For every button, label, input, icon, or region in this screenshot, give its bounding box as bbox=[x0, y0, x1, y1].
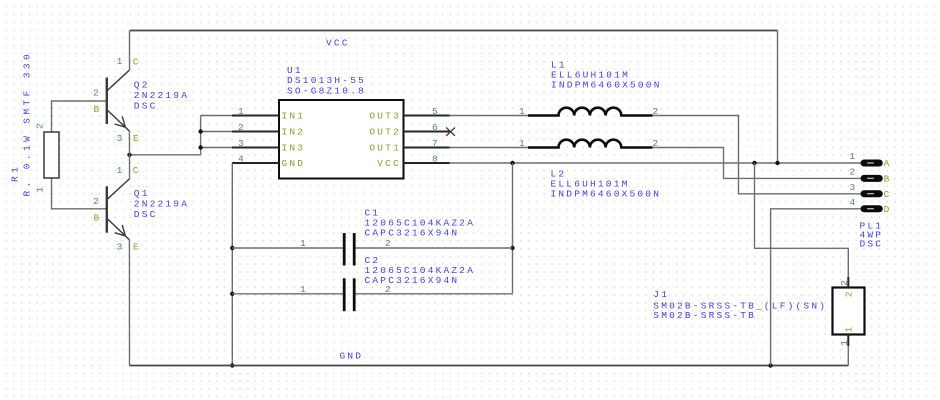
svg-text:3: 3 bbox=[238, 138, 246, 149]
svg-text:DSC: DSC bbox=[134, 209, 158, 220]
svg-text:B: B bbox=[94, 213, 102, 224]
wire J1 pin1 to GND rail bbox=[847, 335, 849, 366]
svg-text:INDPM6460X500N: INDPM6460X500N bbox=[551, 188, 662, 199]
svg-text:GND: GND bbox=[282, 158, 306, 169]
svg-text:C: C bbox=[133, 165, 141, 176]
junction C2 pin1 bbox=[230, 292, 234, 296]
svg-text:OUT1: OUT1 bbox=[369, 143, 401, 154]
pin 3 IN3 of U1 bbox=[232, 147, 279, 149]
wire U1 pin4 GND vertical bbox=[231, 163, 233, 366]
wire U1 pin7 to L2 bbox=[450, 147, 529, 149]
wire C2 pin1 bbox=[232, 293, 343, 295]
junction GND rail at caps bbox=[230, 363, 234, 367]
svg-text:GND: GND bbox=[340, 350, 364, 361]
svg-text:3: 3 bbox=[117, 133, 125, 144]
svg-text:1: 1 bbox=[844, 325, 855, 333]
connector PL1 pad B bbox=[861, 175, 883, 182]
svg-text:1: 1 bbox=[519, 138, 527, 149]
wire VCC drop to connector net A bbox=[777, 31, 779, 164]
svg-text:6: 6 bbox=[432, 122, 440, 133]
wire C2 pin2 bbox=[356, 293, 513, 295]
svg-text:R. 0.1W SMTF 330: R. 0.1W SMTF 330 bbox=[22, 51, 33, 197]
wire C1 pin1 bbox=[232, 247, 343, 249]
junction Q2 emitter / Q1 collector bbox=[127, 153, 131, 157]
svg-text:1: 1 bbox=[300, 284, 308, 295]
connector J1 box bbox=[833, 288, 865, 335]
svg-text:2: 2 bbox=[238, 122, 246, 133]
svg-text:SO-G8Z10.8: SO-G8Z10.8 bbox=[287, 85, 366, 96]
svg-text:DSC: DSC bbox=[860, 239, 884, 250]
svg-text:B: B bbox=[884, 174, 892, 185]
junction input bus pin3 bbox=[198, 145, 202, 149]
connector PL1 pad A bbox=[861, 160, 883, 167]
capacitor C1 bbox=[344, 233, 354, 266]
svg-text:OUT3: OUT3 bbox=[369, 111, 401, 122]
pin 7 OUT1 of U1 bbox=[404, 147, 450, 149]
wire VCC top rail bbox=[130, 30, 778, 32]
pin 2 of J1 bbox=[847, 277, 849, 288]
svg-text:A: A bbox=[884, 158, 892, 169]
svg-text:SM02B-SRSS-TB: SM02B-SRSS-TB bbox=[653, 310, 756, 321]
svg-text:4: 4 bbox=[850, 197, 858, 208]
pin 5 OUT3 of U1 bbox=[404, 115, 450, 117]
transistor Q1 bbox=[107, 179, 130, 240]
svg-text:2: 2 bbox=[850, 166, 858, 177]
svg-text:C: C bbox=[884, 189, 892, 200]
wire VCC net U1 pin8 to connector pin A bbox=[450, 162, 861, 164]
svg-text:1: 1 bbox=[238, 106, 246, 117]
pin 2 IN2 of U1 bbox=[232, 131, 279, 133]
svg-text:R1: R1 bbox=[10, 164, 21, 182]
svg-text:E: E bbox=[133, 242, 141, 253]
svg-text:DSC: DSC bbox=[134, 101, 158, 112]
svg-text:1: 1 bbox=[850, 151, 858, 162]
inductor L2 bbox=[528, 140, 653, 148]
svg-text:2: 2 bbox=[93, 196, 101, 207]
svg-text:CAPC3216X94N: CAPC3216X94N bbox=[365, 275, 460, 286]
capacitor C2 bbox=[344, 278, 354, 311]
wire input to U1 pin2 bbox=[201, 131, 232, 133]
junction C1 pin1 bbox=[230, 246, 234, 250]
pin 4 GND of U1 bbox=[232, 162, 279, 164]
svg-text:E: E bbox=[133, 133, 141, 144]
op-amp U1 box bbox=[279, 100, 404, 179]
svg-text:2: 2 bbox=[844, 289, 855, 297]
svg-text:2: 2 bbox=[385, 238, 393, 249]
wire input to U1 pin3 bbox=[201, 147, 232, 149]
svg-text:3: 3 bbox=[850, 182, 858, 193]
svg-text:INDPM6460X500N: INDPM6460X500N bbox=[551, 80, 662, 91]
pin 1 of J1 bbox=[847, 335, 849, 347]
wire VCC branch to J1 pin2 bbox=[755, 163, 849, 288]
pin 1 IN1 of U1 bbox=[232, 115, 279, 117]
svg-text:2: 2 bbox=[839, 278, 850, 286]
svg-text:4: 4 bbox=[238, 154, 246, 165]
wire R1 pin1 to Q1 base bbox=[52, 178, 108, 209]
svg-text:OUT2: OUT2 bbox=[369, 127, 401, 138]
svg-text:VCC: VCC bbox=[326, 37, 350, 48]
svg-text:IN3: IN3 bbox=[282, 143, 306, 154]
wire Q2 emitter down to node bbox=[128, 131, 130, 155]
svg-text:Q2: Q2 bbox=[134, 80, 150, 91]
wire Q1 emitter to GND rail bbox=[128, 240, 130, 366]
svg-text:1: 1 bbox=[839, 338, 850, 346]
svg-text:2: 2 bbox=[35, 121, 46, 129]
wire Q2 emitter / Q1 collector node to input bus bbox=[130, 116, 201, 155]
svg-text:1: 1 bbox=[117, 56, 125, 67]
transistor Q2 bbox=[107, 70, 130, 131]
svg-text:7: 7 bbox=[432, 138, 440, 149]
svg-text:C: C bbox=[133, 56, 141, 67]
svg-text:2: 2 bbox=[93, 87, 101, 98]
pin 6 OUT2 of U1 bbox=[404, 131, 451, 133]
wire connector pin D to GND bbox=[771, 209, 861, 366]
wire L1 to connector pin C bbox=[653, 116, 861, 194]
wire Q2 collector to VCC bbox=[129, 31, 131, 71]
wire U1 pin5 to L1 bbox=[450, 115, 529, 117]
wire caps right side vertical bbox=[512, 163, 514, 294]
wire L2 to connector pin B bbox=[653, 148, 861, 179]
wire input to U1 pin1 bbox=[201, 115, 232, 117]
svg-text:D: D bbox=[884, 204, 892, 215]
wire Q1 collector up to node bbox=[129, 155, 131, 179]
wire GND rail bbox=[130, 365, 849, 367]
svg-text:J1: J1 bbox=[653, 289, 669, 300]
junction input bus pin2 bbox=[198, 129, 202, 133]
svg-text:B: B bbox=[94, 104, 102, 115]
connector PL1 pad C bbox=[861, 190, 883, 197]
pin 8 VCC of U1 bbox=[404, 162, 450, 164]
wire R1 pin2 to Q2 base bbox=[52, 101, 108, 132]
svg-text:2N2219A: 2N2219A bbox=[134, 199, 189, 210]
inductor L1 bbox=[528, 108, 653, 116]
svg-text:IN2: IN2 bbox=[282, 127, 306, 138]
junction VCC net to decoupling caps bbox=[510, 161, 514, 165]
svg-text:2N2219A: 2N2219A bbox=[134, 90, 189, 101]
junction C1 pin2 bbox=[510, 246, 514, 250]
svg-text:Q1: Q1 bbox=[134, 188, 150, 199]
svg-text:CAPC3216X94N: CAPC3216X94N bbox=[365, 228, 460, 239]
svg-text:1: 1 bbox=[519, 106, 527, 117]
svg-text:1: 1 bbox=[300, 238, 308, 249]
svg-text:5: 5 bbox=[432, 106, 440, 117]
svg-text:1: 1 bbox=[117, 165, 125, 176]
resistor R1 bbox=[44, 132, 59, 178]
no-connect X on pin 6 bbox=[446, 128, 455, 136]
wire C1 pin2 bbox=[356, 247, 513, 249]
svg-text:VCC: VCC bbox=[377, 158, 401, 169]
connector PL1 pad D bbox=[861, 205, 883, 212]
svg-text:IN1: IN1 bbox=[282, 111, 306, 122]
junction GND to connector pin D branch bbox=[768, 363, 772, 367]
junction VCC net to J1 branch bbox=[752, 161, 756, 165]
svg-text:1: 1 bbox=[35, 185, 46, 193]
svg-text:3: 3 bbox=[117, 242, 125, 253]
junction VCC rail drop bbox=[775, 161, 779, 165]
svg-text:8: 8 bbox=[432, 154, 440, 165]
